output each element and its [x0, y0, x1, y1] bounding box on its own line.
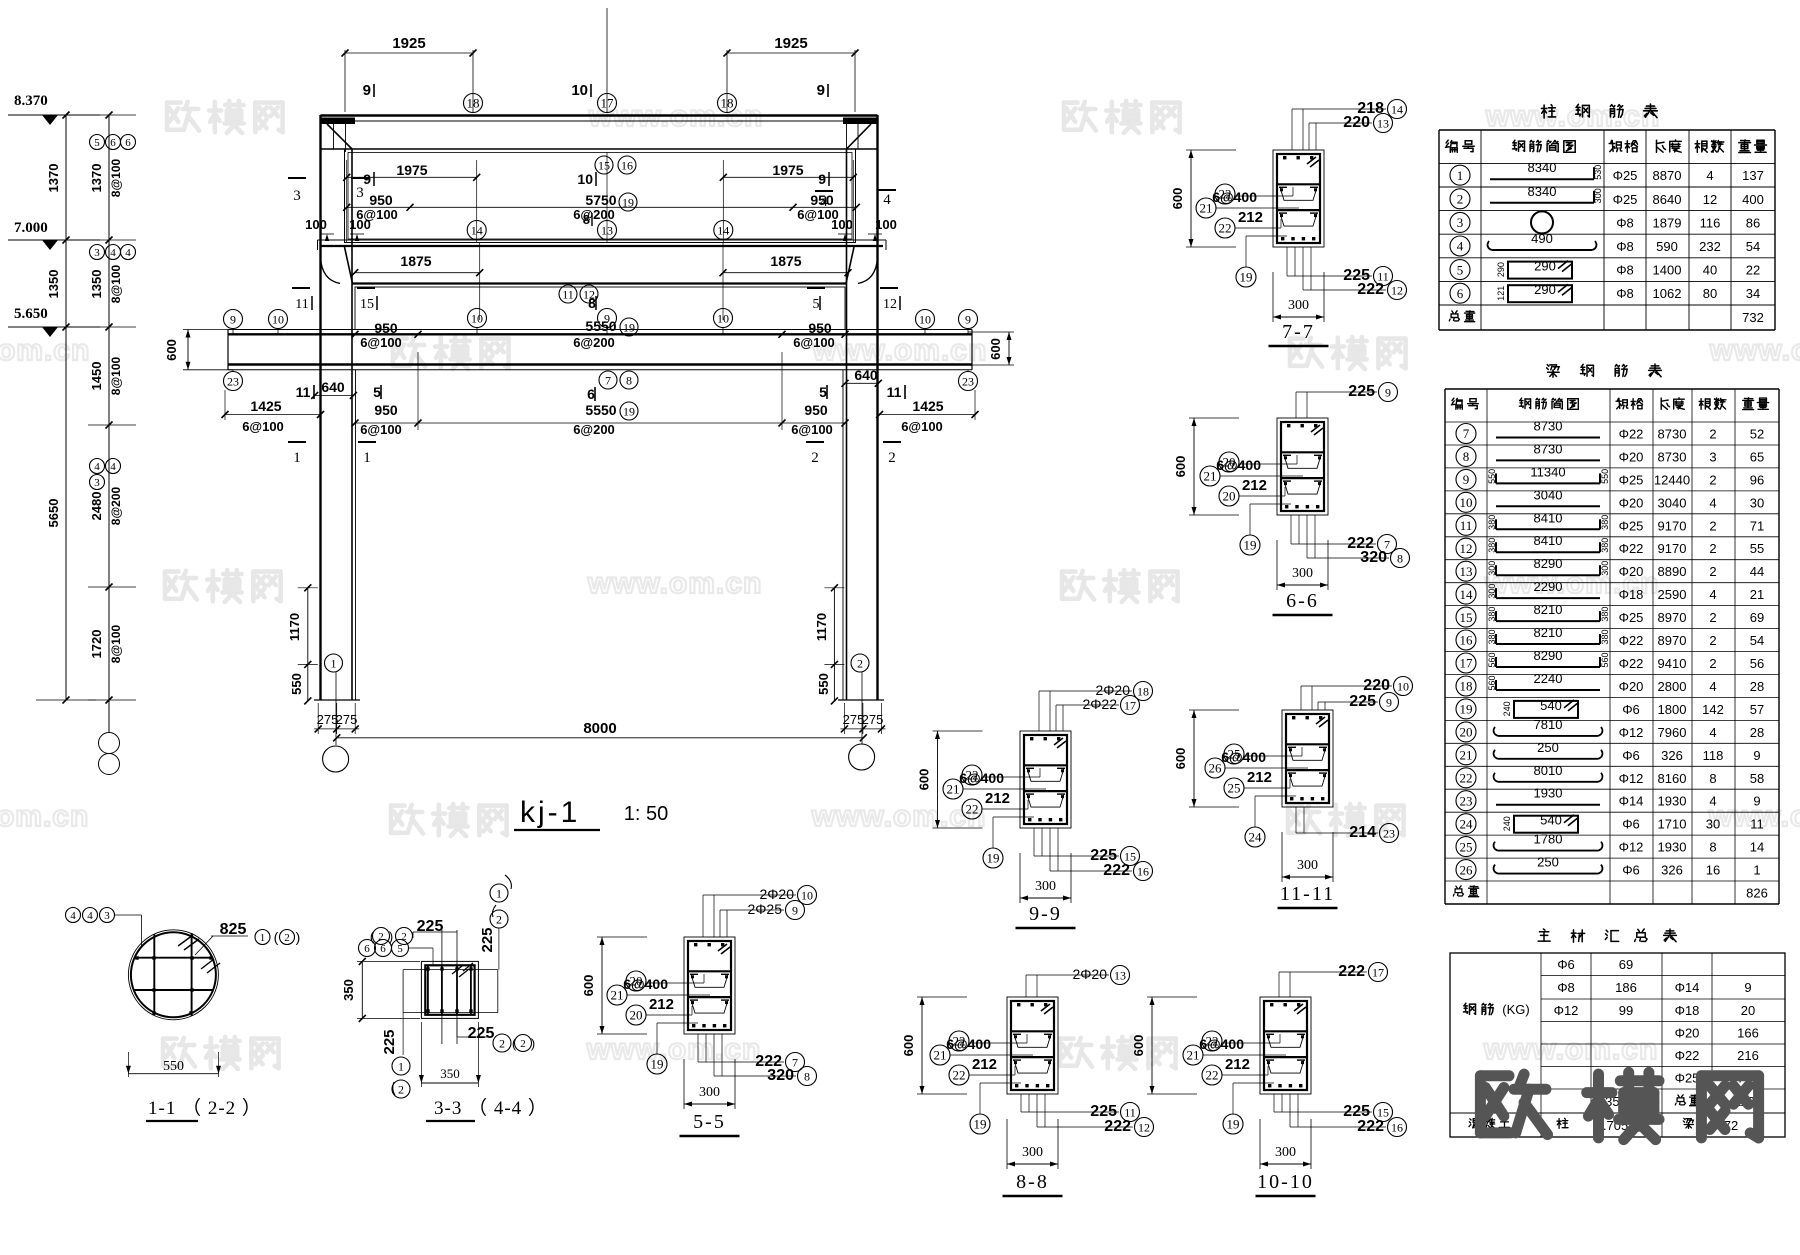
svg-text:350: 350	[440, 1066, 460, 1081]
svg-text:380: 380	[1600, 607, 1610, 622]
svg-text:10: 10	[919, 312, 931, 326]
svg-text:6@400: 6@400	[946, 1036, 991, 1052]
svg-text:380: 380	[1600, 515, 1610, 530]
svg-text:3: 3	[94, 247, 100, 259]
svg-text:212: 212	[1238, 209, 1263, 226]
svg-text:6@100: 6@100	[360, 422, 402, 437]
svg-text:380: 380	[1600, 629, 1610, 644]
svg-text:19: 19	[623, 320, 635, 334]
svg-text:8: 8	[626, 373, 632, 387]
svg-text:142: 142	[1702, 702, 1724, 717]
svg-text:2480: 2480	[89, 492, 104, 521]
svg-text:Φ6: Φ6	[1622, 817, 1640, 832]
svg-text:5: 5	[1457, 262, 1464, 277]
svg-text:300: 300	[1600, 561, 1610, 576]
svg-text:8640: 8640	[1653, 192, 1682, 207]
svg-text:300: 300	[1297, 858, 1318, 873]
svg-text:5750: 5750	[585, 192, 616, 208]
svg-text:1930: 1930	[1658, 840, 1687, 855]
svg-text:8730: 8730	[1534, 419, 1563, 434]
svg-text:Φ6: Φ6	[1622, 702, 1640, 717]
svg-text:300: 300	[699, 1085, 720, 1100]
svg-text:640: 640	[854, 367, 878, 383]
svg-text:8000: 8000	[583, 720, 616, 737]
svg-text:9: 9	[817, 82, 825, 99]
svg-text:222: 222	[1357, 281, 1384, 298]
svg-text:8: 8	[583, 212, 590, 227]
svg-text:600: 600	[901, 1035, 916, 1057]
svg-text:5650: 5650	[46, 499, 61, 528]
svg-text:12440: 12440	[1654, 472, 1690, 487]
svg-text:9410: 9410	[1658, 656, 1687, 671]
svg-text:21: 21	[1460, 748, 1473, 763]
svg-text:14: 14	[1391, 102, 1403, 116]
svg-text:1: 1	[398, 1059, 404, 1073]
svg-text:): )	[531, 1036, 535, 1051]
svg-text:(KG): (KG)	[1502, 1002, 1529, 1017]
svg-text:320: 320	[767, 1067, 794, 1084]
svg-text:6@400: 6@400	[1221, 749, 1266, 765]
svg-text:3: 3	[293, 188, 301, 204]
svg-text:8@200: 8@200	[109, 486, 123, 525]
svg-text:8290: 8290	[1534, 648, 1563, 663]
svg-text:kj-1: kj-1	[520, 796, 580, 829]
svg-text:28: 28	[1750, 679, 1764, 694]
svg-text:300: 300	[1593, 188, 1603, 203]
svg-text:Φ12: Φ12	[1554, 1003, 1579, 1018]
svg-text:950: 950	[804, 402, 828, 418]
svg-text:950: 950	[369, 192, 393, 208]
svg-text:22: 22	[1206, 1068, 1219, 1083]
svg-text:4: 4	[1706, 168, 1713, 183]
svg-text:8870: 8870	[1653, 168, 1682, 183]
svg-text:212: 212	[1242, 477, 1267, 494]
svg-text:100: 100	[831, 217, 853, 232]
svg-text:17: 17	[1460, 656, 1474, 671]
svg-text:100: 100	[349, 217, 371, 232]
svg-text:212: 212	[1247, 769, 1272, 786]
svg-text:Φ25: Φ25	[1619, 518, 1644, 533]
svg-text:1879: 1879	[1653, 215, 1682, 230]
svg-text:22: 22	[1460, 770, 1473, 785]
svg-text:18: 18	[467, 96, 480, 111]
svg-text:3: 3	[1457, 215, 1464, 230]
svg-text:56: 56	[1750, 656, 1764, 671]
svg-text:1: 1	[1457, 168, 1464, 183]
svg-text:2: 2	[1709, 610, 1716, 625]
svg-text:290: 290	[1496, 262, 1506, 277]
svg-text:250: 250	[1537, 740, 1559, 755]
svg-text:1062: 1062	[1653, 286, 1682, 301]
svg-text:16: 16	[1391, 1120, 1403, 1134]
svg-text:www.om.cn: www.om.cn	[587, 567, 763, 600]
svg-text:212: 212	[985, 790, 1010, 807]
svg-text:6@400: 6@400	[623, 976, 668, 992]
svg-text:Φ18: Φ18	[1675, 1003, 1700, 1018]
svg-text:5: 5	[813, 297, 820, 312]
svg-text:5.650: 5.650	[14, 306, 48, 322]
svg-text:17: 17	[601, 96, 615, 111]
svg-text:212: 212	[649, 996, 674, 1013]
svg-text:9170: 9170	[1658, 518, 1687, 533]
svg-text:540: 540	[1540, 813, 1562, 828]
svg-text:19: 19	[987, 851, 1000, 866]
svg-text:950: 950	[374, 320, 398, 336]
svg-text:222: 222	[1357, 1118, 1384, 1135]
svg-text:9: 9	[1386, 695, 1392, 709]
svg-text:21: 21	[611, 988, 624, 1003]
svg-text:6@400: 6@400	[1212, 189, 1257, 205]
svg-text:Φ8: Φ8	[1616, 263, 1634, 278]
svg-text:5550: 5550	[585, 402, 616, 418]
svg-text:530: 530	[1593, 165, 1603, 180]
svg-text:380: 380	[1600, 538, 1610, 553]
svg-text:380: 380	[1487, 629, 1497, 644]
svg-text:1: 50: 1: 50	[624, 803, 668, 825]
svg-text:18: 18	[1137, 684, 1149, 698]
svg-text:1: 1	[1753, 863, 1760, 878]
svg-text:11340: 11340	[1530, 464, 1565, 479]
svg-text:8.370: 8.370	[14, 93, 48, 109]
svg-text:www.om.cn: www.om.cn	[1485, 100, 1661, 133]
svg-text:23: 23	[227, 374, 239, 388]
svg-text:1425: 1425	[912, 398, 943, 414]
svg-text:9: 9	[1385, 385, 1391, 399]
svg-text:Φ14: Φ14	[1619, 794, 1644, 809]
svg-text:8730: 8730	[1658, 427, 1687, 442]
svg-text:225: 225	[417, 918, 444, 935]
svg-text:11: 11	[1460, 518, 1473, 533]
svg-text:19: 19	[1240, 270, 1253, 285]
svg-text:8730: 8730	[1534, 441, 1563, 456]
svg-text:275: 275	[336, 712, 358, 727]
svg-text:8970: 8970	[1658, 633, 1687, 648]
svg-text:www.om.cn: www.om.cn	[0, 800, 89, 833]
svg-text:Φ20: Φ20	[1619, 679, 1644, 694]
svg-text:216: 216	[1737, 1048, 1759, 1063]
svg-text:96: 96	[1750, 472, 1764, 487]
svg-text:20: 20	[1741, 1003, 1755, 1018]
svg-text:8340: 8340	[1528, 184, 1557, 199]
svg-text:11: 11	[1750, 817, 1764, 832]
svg-text:1975: 1975	[396, 162, 427, 178]
svg-text:11: 11	[562, 287, 574, 301]
svg-text:6@200: 6@200	[573, 422, 615, 437]
svg-text:3: 3	[104, 910, 110, 922]
svg-text:Φ22: Φ22	[1619, 541, 1644, 556]
svg-text:30: 30	[1706, 817, 1720, 832]
svg-text:12: 12	[1460, 541, 1473, 556]
svg-text:4: 4	[125, 247, 131, 259]
svg-text:1370: 1370	[89, 164, 104, 193]
svg-text:225: 225	[381, 1029, 398, 1054]
svg-text:326: 326	[1661, 863, 1683, 878]
svg-text:3040: 3040	[1534, 487, 1563, 502]
svg-text:7-7: 7-7	[1282, 321, 1315, 343]
svg-text:825: 825	[220, 921, 247, 938]
svg-text:Φ6: Φ6	[1622, 748, 1640, 763]
svg-text:7960: 7960	[1658, 725, 1687, 740]
svg-text:300: 300	[1275, 1145, 1296, 1160]
svg-text:5-5: 5-5	[693, 1111, 726, 1133]
svg-text:10: 10	[471, 311, 483, 325]
svg-text:2: 2	[1709, 564, 1716, 579]
svg-text:Φ8: Φ8	[1616, 215, 1634, 230]
svg-text:14: 14	[717, 223, 729, 237]
svg-text:350: 350	[341, 979, 356, 1001]
svg-text:2290: 2290	[1534, 579, 1563, 594]
svg-text:11-11: 11-11	[1280, 883, 1335, 905]
svg-text:121: 121	[1496, 286, 1506, 301]
svg-text:1800: 1800	[1658, 702, 1687, 717]
svg-text:8: 8	[1397, 551, 1403, 565]
svg-text:Φ6: Φ6	[1557, 957, 1575, 972]
svg-text:6: 6	[1457, 286, 1464, 301]
svg-text:22: 22	[1746, 263, 1760, 278]
svg-text:11: 11	[295, 297, 308, 312]
svg-text:590: 590	[1656, 239, 1678, 254]
svg-text:540: 540	[1540, 698, 1562, 713]
svg-text:10: 10	[577, 171, 593, 187]
svg-text:8@100: 8@100	[109, 356, 123, 395]
svg-text:7.000: 7.000	[14, 220, 48, 236]
svg-text:1: 1	[363, 450, 371, 466]
svg-text:4: 4	[1709, 725, 1716, 740]
svg-text:240: 240	[1502, 816, 1512, 831]
svg-text:8730: 8730	[1658, 449, 1687, 464]
svg-text:1780: 1780	[1534, 832, 1563, 847]
svg-text:290: 290	[1534, 259, 1556, 274]
svg-text:19: 19	[974, 1117, 987, 1132]
svg-text:600: 600	[988, 338, 1003, 360]
svg-text:6: 6	[110, 137, 116, 149]
svg-text:8160: 8160	[1658, 771, 1687, 786]
svg-text:2590: 2590	[1658, 587, 1687, 602]
svg-text:16: 16	[621, 158, 633, 172]
svg-text:17: 17	[1372, 965, 1384, 979]
svg-text:2: 2	[1709, 656, 1716, 671]
svg-text:69: 69	[1750, 610, 1764, 625]
svg-text:19: 19	[1227, 1117, 1240, 1132]
svg-text:232: 232	[1699, 239, 1721, 254]
svg-text:2: 2	[284, 932, 290, 944]
svg-text:30: 30	[1750, 495, 1764, 510]
svg-text:28: 28	[1750, 725, 1764, 740]
svg-text:8290: 8290	[1534, 556, 1563, 571]
svg-text:54: 54	[1746, 239, 1760, 254]
svg-text:21: 21	[1200, 201, 1213, 216]
svg-text:2: 2	[398, 1082, 404, 1096]
svg-text:15: 15	[1460, 610, 1473, 625]
svg-text:Φ25: Φ25	[1613, 192, 1638, 207]
svg-text:8210: 8210	[1534, 625, 1563, 640]
svg-text:220: 220	[1343, 114, 1370, 131]
svg-text:240: 240	[1502, 701, 1512, 716]
svg-text:5: 5	[819, 384, 827, 400]
svg-text:13: 13	[1460, 564, 1473, 579]
svg-text:8: 8	[1463, 449, 1470, 464]
svg-text:23: 23	[1460, 793, 1473, 808]
svg-text:8410: 8410	[1534, 510, 1563, 525]
svg-text:12: 12	[1138, 1120, 1150, 1134]
svg-text:8: 8	[804, 1069, 810, 1083]
svg-text:Φ22: Φ22	[1619, 656, 1644, 671]
svg-text:8: 8	[588, 295, 596, 311]
svg-text:Φ25: Φ25	[1619, 610, 1644, 625]
svg-text:186: 186	[1615, 980, 1637, 995]
svg-text:Φ12: Φ12	[1619, 771, 1644, 786]
svg-text:326: 326	[1661, 748, 1683, 763]
svg-text:69: 69	[1619, 957, 1633, 972]
svg-text:640: 640	[321, 379, 345, 395]
svg-text:222: 222	[1338, 963, 1365, 980]
svg-text:212: 212	[972, 1056, 997, 1073]
svg-text:58: 58	[1750, 771, 1764, 786]
svg-text:1: 1	[260, 932, 266, 944]
svg-text:300: 300	[1487, 561, 1497, 576]
svg-text:Φ20: Φ20	[1619, 564, 1644, 579]
svg-text:380: 380	[1487, 538, 1497, 553]
svg-text:4: 4	[1709, 794, 1716, 809]
svg-text:2: 2	[857, 656, 863, 670]
svg-text:21: 21	[1187, 1048, 1200, 1063]
svg-text:4: 4	[110, 461, 116, 473]
svg-text:9: 9	[818, 171, 826, 187]
svg-text:23: 23	[1383, 826, 1395, 840]
svg-text:1170: 1170	[814, 613, 829, 641]
svg-text:16: 16	[1137, 864, 1149, 878]
svg-text:19: 19	[623, 404, 635, 418]
svg-text:4: 4	[87, 910, 93, 922]
svg-text:44: 44	[1750, 564, 1764, 579]
svg-text:18: 18	[721, 96, 734, 111]
svg-text:214: 214	[1349, 824, 1376, 841]
svg-text:12: 12	[1391, 283, 1403, 297]
svg-text:www.om.cn: www.om.cn	[812, 334, 988, 367]
svg-text:550: 550	[289, 673, 304, 695]
svg-text:560: 560	[1487, 652, 1497, 667]
svg-text:4: 4	[883, 192, 891, 208]
svg-text:212: 212	[1225, 1056, 1250, 1073]
svg-text:8@100: 8@100	[109, 158, 123, 197]
svg-text:6@100: 6@100	[791, 422, 833, 437]
svg-text:1425: 1425	[250, 398, 281, 414]
svg-text:24: 24	[1249, 830, 1263, 845]
svg-text:1710: 1710	[1658, 817, 1687, 832]
svg-text:6@200: 6@200	[573, 207, 615, 222]
svg-text:22: 22	[1219, 221, 1232, 236]
svg-text:6@400: 6@400	[1199, 1036, 1244, 1052]
svg-text:600: 600	[1131, 1035, 1146, 1057]
svg-text:18: 18	[1460, 679, 1473, 694]
svg-text:40: 40	[1703, 263, 1717, 278]
svg-text:1925: 1925	[774, 35, 807, 52]
svg-text:100: 100	[305, 217, 327, 232]
svg-text:1400: 1400	[1653, 263, 1682, 278]
svg-text:116: 116	[1700, 215, 1721, 230]
svg-text:1720: 1720	[89, 630, 104, 659]
svg-text:20: 20	[1223, 489, 1236, 504]
svg-text:71: 71	[1750, 518, 1764, 533]
svg-text:5: 5	[397, 943, 403, 955]
svg-text:26: 26	[1209, 761, 1223, 776]
svg-text:9: 9	[792, 903, 798, 917]
svg-text:16: 16	[1706, 863, 1720, 878]
svg-text:300: 300	[1487, 584, 1497, 599]
svg-text:300: 300	[1022, 1145, 1043, 1160]
svg-text:Φ8: Φ8	[1616, 239, 1634, 254]
svg-text:225: 225	[468, 1025, 495, 1042]
svg-text:21: 21	[1204, 469, 1217, 484]
svg-text:Φ20: Φ20	[1619, 495, 1644, 510]
svg-text:1925: 1925	[392, 35, 425, 52]
svg-text:8970: 8970	[1658, 610, 1687, 625]
svg-text:550: 550	[163, 1059, 184, 1074]
svg-text:2: 2	[1709, 427, 1716, 442]
svg-text:2: 2	[811, 450, 819, 466]
svg-text:Φ25: Φ25	[1619, 472, 1644, 487]
svg-text:4: 4	[1457, 239, 1464, 254]
svg-text:6: 6	[364, 943, 370, 955]
svg-text:10: 10	[1397, 679, 1409, 693]
svg-text:4: 4	[1709, 679, 1716, 694]
svg-text:4: 4	[94, 461, 100, 473]
svg-text:23: 23	[962, 374, 974, 388]
svg-text:8210: 8210	[1534, 602, 1563, 617]
svg-text:6@100: 6@100	[793, 335, 835, 350]
svg-text:490: 490	[1531, 231, 1553, 246]
svg-text:8890: 8890	[1658, 564, 1687, 579]
svg-text:6@400: 6@400	[1216, 457, 1261, 473]
svg-text:): )	[296, 929, 301, 945]
svg-text:550: 550	[1600, 469, 1610, 484]
svg-text:225: 225	[1348, 383, 1375, 400]
svg-text:9: 9	[1463, 472, 1470, 487]
svg-text:600: 600	[1173, 748, 1188, 770]
svg-text:12: 12	[883, 297, 897, 312]
svg-text:3: 3	[356, 185, 364, 201]
svg-text:14: 14	[1750, 840, 1764, 855]
svg-text:732: 732	[1742, 310, 1764, 325]
svg-text:2800: 2800	[1658, 679, 1687, 694]
svg-text:9: 9	[965, 312, 971, 326]
svg-text:99: 99	[1619, 1003, 1633, 1018]
svg-text:Φ22: Φ22	[1619, 427, 1644, 442]
svg-text:222: 222	[1103, 862, 1130, 879]
svg-text:380: 380	[1487, 515, 1497, 530]
svg-text:6@100: 6@100	[901, 419, 943, 434]
svg-text:2: 2	[520, 1038, 526, 1050]
svg-text:4: 4	[110, 247, 116, 259]
svg-text:2: 2	[1709, 518, 1716, 533]
svg-text:2Φ22: 2Φ22	[1082, 696, 1117, 712]
svg-text:21: 21	[947, 782, 960, 797]
svg-text:52: 52	[1750, 427, 1764, 442]
svg-text:8: 8	[1709, 840, 1716, 855]
svg-text:Φ6: Φ6	[1622, 863, 1640, 878]
svg-text:2Φ20: 2Φ20	[759, 886, 794, 902]
svg-text:3: 3	[1709, 449, 1716, 464]
svg-text:25: 25	[1460, 839, 1473, 854]
svg-text:6@400: 6@400	[959, 770, 1004, 786]
svg-text:8@100: 8@100	[109, 624, 123, 663]
svg-text:300: 300	[1292, 566, 1313, 581]
svg-text:2Φ20: 2Φ20	[1072, 966, 1107, 982]
svg-text:Φ20: Φ20	[1619, 449, 1644, 464]
svg-text:3: 3	[94, 477, 100, 489]
svg-text:5550: 5550	[585, 318, 616, 334]
svg-text:Φ25: Φ25	[1613, 168, 1638, 183]
